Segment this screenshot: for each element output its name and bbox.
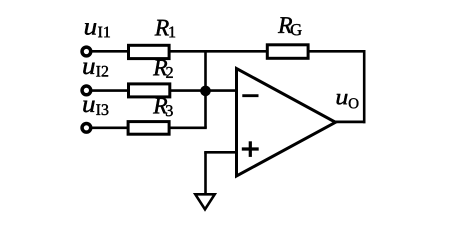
op-amp non-inverting input plus sign	[242, 147, 259, 150]
label R3	[153, 98, 173, 116]
resistor R2	[129, 84, 170, 97]
wire: input 2 from terminal through R2 to node and op-amp inverting input	[90, 89, 238, 92]
terminal circle input 3	[82, 123, 91, 132]
label uI3	[83, 101, 108, 115]
wire: vertical drop to ground symbol	[204, 152, 207, 195]
label uI1	[85, 23, 110, 37]
wire: feedback right vertical from top wire down to output	[363, 50, 366, 123]
label uI2	[83, 63, 108, 77]
label RG	[278, 17, 302, 35]
op-amp inverting input minus sign	[242, 94, 258, 97]
node: summing junction dot	[200, 86, 211, 97]
wire: vertical junction line joining rows at node	[204, 51, 207, 128]
op-amp U1 triangle	[237, 69, 336, 177]
wire: input 1 from terminal to R1 and on to RG and output vertical	[90, 50, 366, 53]
wire: input 3 from terminal through R3 to corner below node	[90, 127, 207, 130]
resistor RG	[267, 45, 308, 59]
terminal circle input 1	[82, 47, 91, 56]
resistor R3	[128, 122, 169, 135]
resistor R1	[129, 45, 170, 58]
label R2	[153, 60, 173, 78]
ground	[195, 194, 214, 209]
terminal circle input 2	[82, 86, 91, 95]
wire: op-amp non-inverting input to ground branch	[204, 151, 237, 154]
wire: output horizontal from op-amp apex	[334, 121, 366, 124]
label R1	[155, 20, 176, 37]
label uO	[337, 94, 359, 108]
